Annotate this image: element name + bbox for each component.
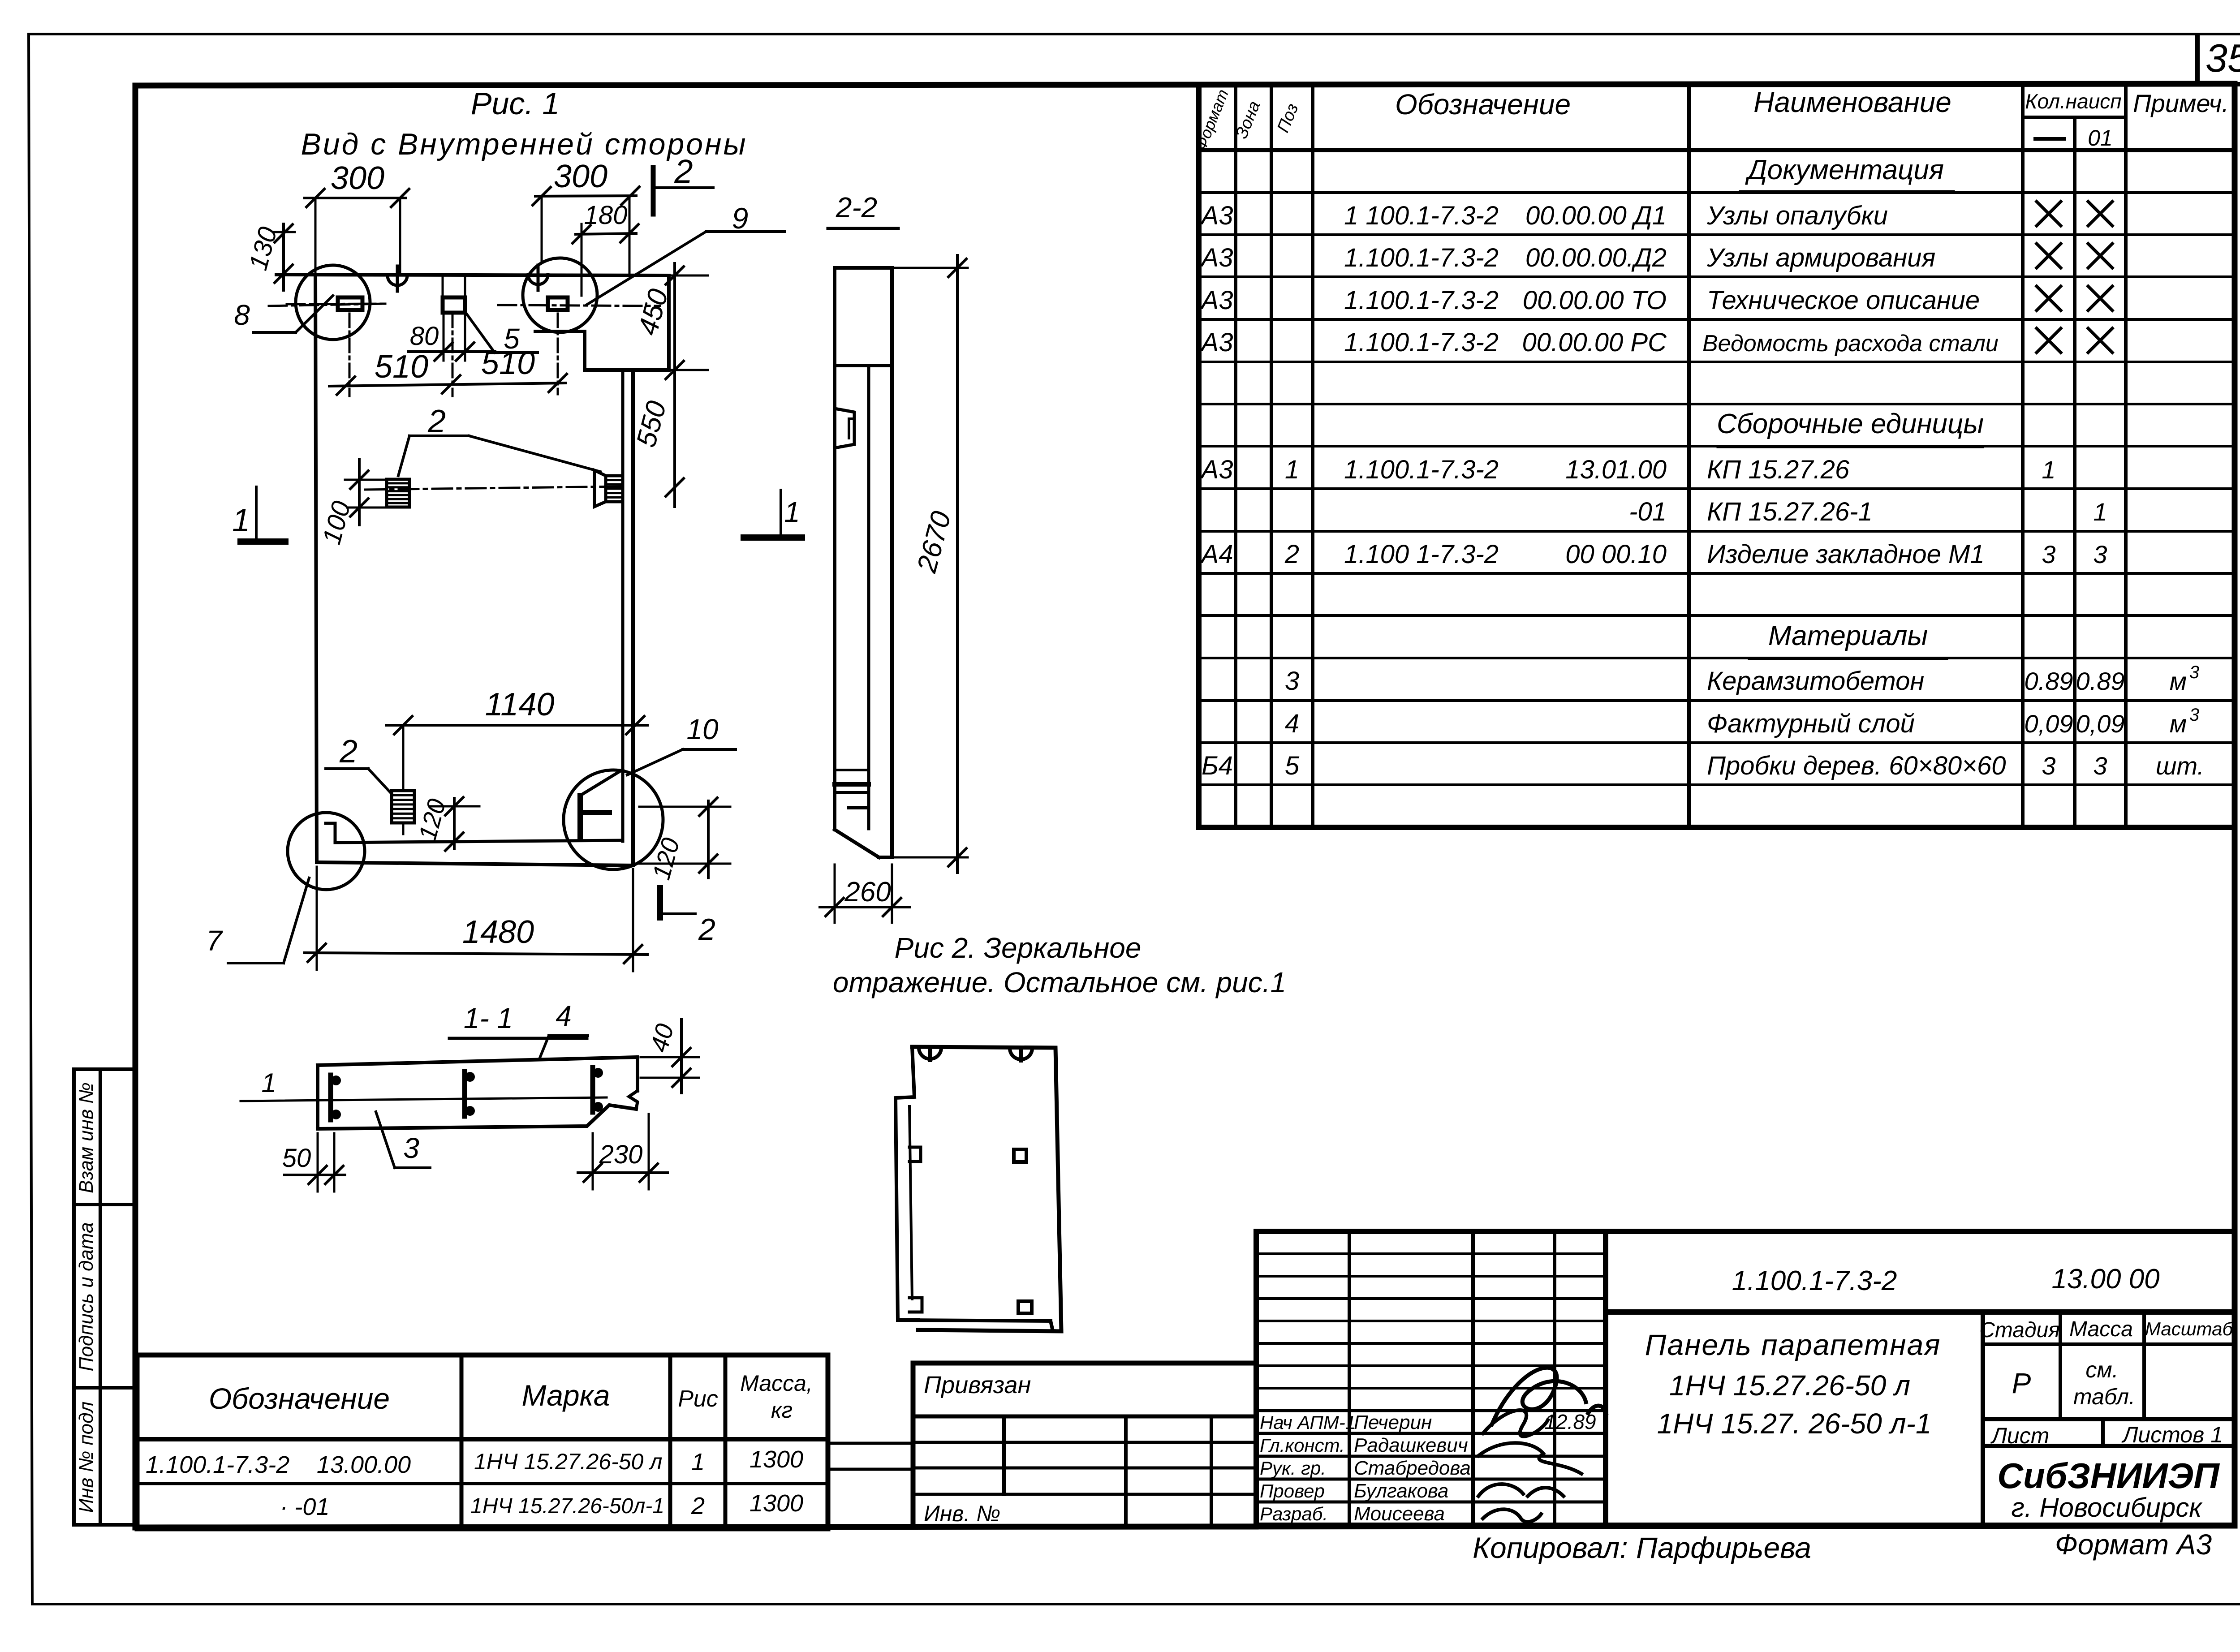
svg-text:Стабредова: Стабредова <box>1354 1457 1471 1479</box>
svg-text:1.100.1-7.3-2: 1.100.1-7.3-2 <box>146 1451 289 1478</box>
svg-text:Кол.наисп: Кол.наисп <box>2025 90 2121 113</box>
svg-text:3: 3 <box>1285 667 1299 696</box>
svg-text:м: м <box>2170 667 2187 695</box>
svg-text:Документация: Документация <box>1745 155 1944 185</box>
svg-text:1НЧ 15.27.26-50 л: 1НЧ 15.27.26-50 л <box>474 1449 662 1474</box>
svg-text:180: 180 <box>584 201 628 230</box>
svg-text:1НЧ 15.27.26-50 л: 1НЧ 15.27.26-50 л <box>1669 1369 1910 1402</box>
svg-text:Ведомость расхода стали: Ведомость расхода стали <box>1702 331 1999 357</box>
svg-text:табл.: табл. <box>2073 1384 2135 1409</box>
svg-text:3: 3 <box>2093 752 2107 780</box>
svg-text:9: 9 <box>732 202 749 235</box>
svg-text:А3: А3 <box>1200 286 1233 315</box>
svg-text:3: 3 <box>403 1132 419 1164</box>
svg-text:Р: Р <box>2012 1367 2031 1399</box>
svg-text:3: 3 <box>2093 540 2107 568</box>
svg-text:1300: 1300 <box>750 1446 803 1473</box>
svg-text:2: 2 <box>691 1493 705 1519</box>
svg-text:Моисеева: Моисеева <box>1354 1503 1445 1525</box>
svg-text:0.89: 0.89 <box>2076 667 2125 695</box>
svg-text:· -01: · -01 <box>280 1493 329 1520</box>
svg-text:1140: 1140 <box>485 687 555 723</box>
svg-text:1: 1 <box>2042 456 2055 484</box>
svg-text:Керамзитобетон: Керамзитобетон <box>1707 667 1924 696</box>
svg-text:Фактурный слой: Фактурный слой <box>1707 709 1915 738</box>
svg-text:Провер: Провер <box>1260 1480 1325 1501</box>
svg-text:1.100.1-7.3-2: 1.100.1-7.3-2 <box>1344 286 1499 315</box>
svg-text:Масса,: Масса, <box>740 1371 813 1396</box>
svg-text:0,09: 0,09 <box>2076 710 2125 738</box>
svg-text:7: 7 <box>206 925 223 957</box>
svg-text:300: 300 <box>331 160 384 196</box>
svg-text:1: 1 <box>691 1449 705 1476</box>
svg-text:1.100.1-7.3-2: 1.100.1-7.3-2 <box>1344 455 1499 484</box>
svg-text:Рис: Рис <box>678 1386 718 1412</box>
svg-text:1: 1 <box>261 1068 276 1098</box>
svg-text:Панель парапетная: Панель парапетная <box>1645 1328 1941 1361</box>
svg-text:1.100 1-7.3-2: 1.100 1-7.3-2 <box>1344 540 1499 569</box>
svg-text:4: 4 <box>1285 709 1299 738</box>
svg-text:Взам инв №: Взам инв № <box>75 1082 97 1193</box>
svg-text:Подпись и дата: Подпись и дата <box>75 1222 97 1372</box>
svg-text:00.00.00.Д2: 00.00.00.Д2 <box>1525 243 1667 272</box>
svg-text:8: 8 <box>234 299 250 331</box>
svg-text:2: 2 <box>427 404 446 439</box>
svg-text:г. Новосибирск: г. Новосибирск <box>2011 1493 2203 1523</box>
svg-text:Пробки дерев. 60×80×60: Пробки дерев. 60×80×60 <box>1707 751 2006 780</box>
svg-text:Стадия: Стадия <box>1979 1318 2060 1342</box>
svg-text:Радашкевич: Радашкевич <box>1354 1434 1468 1456</box>
svg-text:2: 2 <box>698 912 715 946</box>
svg-text:35: 35 <box>2206 36 2240 80</box>
svg-text:1.100.1-7.3-2: 1.100.1-7.3-2 <box>1344 328 1499 357</box>
svg-text:80: 80 <box>410 322 439 351</box>
svg-text:Рук. гр.: Рук. гр. <box>1260 1458 1326 1479</box>
svg-text:3: 3 <box>2189 705 2199 725</box>
svg-text:Нач АПМ-1: Нач АПМ-1 <box>1260 1412 1356 1433</box>
svg-text:А3: А3 <box>1200 201 1233 230</box>
svg-text:260: 260 <box>844 877 891 908</box>
svg-text:Копировал: Парфирьева: Копировал: Парфирьева <box>1473 1531 1811 1564</box>
svg-text:1300: 1300 <box>750 1490 803 1517</box>
svg-text:00 00.10: 00 00.10 <box>1565 540 1667 569</box>
svg-text:1- 1: 1- 1 <box>464 1002 513 1034</box>
svg-text:13.00 00: 13.00 00 <box>2051 1264 2159 1295</box>
svg-text:2: 2 <box>674 153 693 190</box>
svg-text:Изделие закладное М1: Изделие закладное М1 <box>1707 540 1985 569</box>
svg-text:1: 1 <box>232 503 250 538</box>
svg-text:Сборочные единицы: Сборочные единицы <box>1717 409 1984 439</box>
svg-text:1.100.1-7.3-2: 1.100.1-7.3-2 <box>1732 1265 1897 1296</box>
svg-text:КП 15.27.26: КП 15.27.26 <box>1707 455 1850 484</box>
svg-text:Примеч.: Примеч. <box>2133 89 2229 117</box>
svg-text:3: 3 <box>2189 663 2199 682</box>
svg-text:00.00.00 Д1: 00.00.00 Д1 <box>1525 201 1667 230</box>
svg-text:Наименование: Наименование <box>1753 86 1951 118</box>
svg-text:4: 4 <box>556 1000 572 1032</box>
svg-text:1480: 1480 <box>462 914 534 950</box>
svg-text:1НЧ 15.27. 26-50 л-1: 1НЧ 15.27. 26-50 л-1 <box>1657 1407 1932 1440</box>
svg-text:230: 230 <box>599 1140 643 1169</box>
svg-text:2: 2 <box>339 734 358 770</box>
svg-text:Обозначение: Обозначение <box>1395 88 1571 120</box>
svg-text:510: 510 <box>481 345 535 381</box>
svg-text:А3: А3 <box>1200 243 1233 272</box>
svg-text:1 100.1-7.3-2: 1 100.1-7.3-2 <box>1344 201 1499 230</box>
svg-text:Булгакова: Булгакова <box>1354 1480 1448 1502</box>
svg-text:А3: А3 <box>1200 455 1233 484</box>
svg-text:Обозначение: Обозначение <box>209 1382 390 1415</box>
svg-text:Листов 1: Листов 1 <box>2121 1422 2223 1447</box>
svg-text:3: 3 <box>2042 752 2055 780</box>
svg-text:Б4: Б4 <box>1202 751 1233 780</box>
svg-text:5: 5 <box>1285 751 1300 780</box>
svg-text:50: 50 <box>282 1144 311 1173</box>
svg-text:Узлы армирования: Узлы армирования <box>1706 243 1935 272</box>
svg-text:шт.: шт. <box>2156 752 2204 780</box>
svg-text:00.00.00 ТО: 00.00.00 ТО <box>1523 286 1667 315</box>
svg-text:Привязан: Привязан <box>924 1372 1031 1398</box>
svg-text:1: 1 <box>2093 498 2107 526</box>
svg-text:Техническое описание: Техническое описание <box>1707 286 1980 315</box>
svg-text:Марка: Марка <box>521 1379 610 1412</box>
svg-text:1: 1 <box>784 496 800 528</box>
svg-text:Печерин: Печерин <box>1354 1411 1432 1433</box>
svg-text:00.00.00 РС: 00.00.00 РС <box>1522 328 1667 357</box>
svg-text:510: 510 <box>375 349 428 385</box>
svg-text:0.89: 0.89 <box>2025 667 2073 695</box>
svg-text:13.00.00: 13.00.00 <box>317 1451 411 1478</box>
svg-text:-01: -01 <box>1629 497 1667 526</box>
svg-text:см.: см. <box>2085 1357 2118 1382</box>
svg-text:2: 2 <box>1284 540 1299 569</box>
svg-text:А4: А4 <box>1200 540 1233 569</box>
svg-text:01: 01 <box>2088 125 2113 151</box>
svg-text:Инв. №: Инв. № <box>924 1501 1000 1526</box>
svg-text:13.01.00: 13.01.00 <box>1565 455 1667 484</box>
svg-text:Узлы опалубки: Узлы опалубки <box>1706 201 1888 230</box>
svg-text:Рис 2. Зеркальное: Рис 2. Зеркальное <box>895 932 1142 964</box>
svg-text:Гл.конст.: Гл.конст. <box>1260 1435 1345 1456</box>
svg-text:2-2: 2-2 <box>836 191 878 224</box>
svg-text:Материалы: Материалы <box>1768 620 1928 651</box>
svg-text:Масштаб: Масштаб <box>2145 1318 2234 1339</box>
svg-text:3: 3 <box>2042 540 2055 568</box>
svg-text:10: 10 <box>686 713 719 745</box>
svg-text:1НЧ 15.27.26-50л-1: 1НЧ 15.27.26-50л-1 <box>470 1494 664 1518</box>
svg-text:Инв № подл: Инв № подл <box>75 1402 97 1513</box>
svg-text:0,09: 0,09 <box>2025 710 2073 738</box>
svg-text:300: 300 <box>554 159 607 194</box>
svg-text:СибЗНИИЭП: СибЗНИИЭП <box>1997 1456 2220 1496</box>
svg-text:1: 1 <box>1285 455 1299 484</box>
svg-text:Формат А3: Формат А3 <box>2055 1528 2212 1561</box>
svg-text:Рис. 1: Рис. 1 <box>471 86 560 121</box>
svg-text:Масса: Масса <box>2069 1317 2133 1341</box>
svg-text:КП 15.27.26-1: КП 15.27.26-1 <box>1707 497 1873 526</box>
svg-text:отражение. Остальное см. рис.1: отражение. Остальное см. рис.1 <box>833 966 1286 998</box>
svg-text:1.100.1-7.3-2: 1.100.1-7.3-2 <box>1344 243 1499 272</box>
svg-text:А3: А3 <box>1200 328 1233 357</box>
svg-text:кг: кг <box>771 1398 793 1423</box>
svg-text:Разраб.: Разраб. <box>1260 1503 1328 1524</box>
svg-text:м: м <box>2170 710 2187 738</box>
